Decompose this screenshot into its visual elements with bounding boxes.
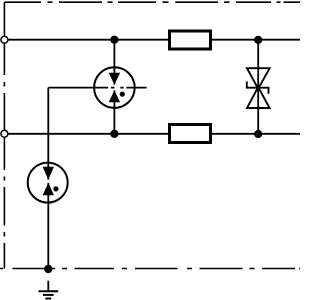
resistor (top decoupling element)	[170, 31, 211, 49]
junction: ground node on boundary	[44, 265, 52, 273]
junction: top wire / suppressor diode	[254, 36, 262, 44]
device outline bottom (dash-dot boundary)	[0, 268, 300, 270]
wire: left vertical branch down to ground junction	[47, 88, 49, 269]
suppressor diode (bidirectional TVS)	[247, 68, 270, 108]
junction: bottom wire / suppressor diode	[254, 130, 262, 138]
terminal 2 (open circle, lower left)	[1, 130, 8, 137]
isolating spark gap (upper gas discharge tube)	[93, 67, 146, 108]
junction: bottom wire / upper spark gap	[110, 130, 118, 138]
device outline left (dash-dot boundary)	[3, 2, 5, 268]
spark gap (lower gas discharge tube)	[28, 163, 68, 203]
wire: vertical branch through upper spark gap	[113, 40, 115, 134]
wire: top line from terminal 1 to right edge	[8, 39, 300, 41]
wire: bottom line from terminal 2 to right edge	[8, 133, 300, 135]
wire: vertical branch through suppressor diode	[257, 40, 259, 134]
ground	[39, 281, 59, 299]
resistor (bottom decoupling element)	[170, 125, 211, 143]
terminal 1 (open circle, top left)	[1, 36, 8, 43]
wire: stub from upper spark gap to left branch	[48, 87, 93, 89]
junction: top wire / upper spark gap	[110, 36, 118, 44]
device outline top (dash-dot boundary)	[4, 1, 300, 3]
